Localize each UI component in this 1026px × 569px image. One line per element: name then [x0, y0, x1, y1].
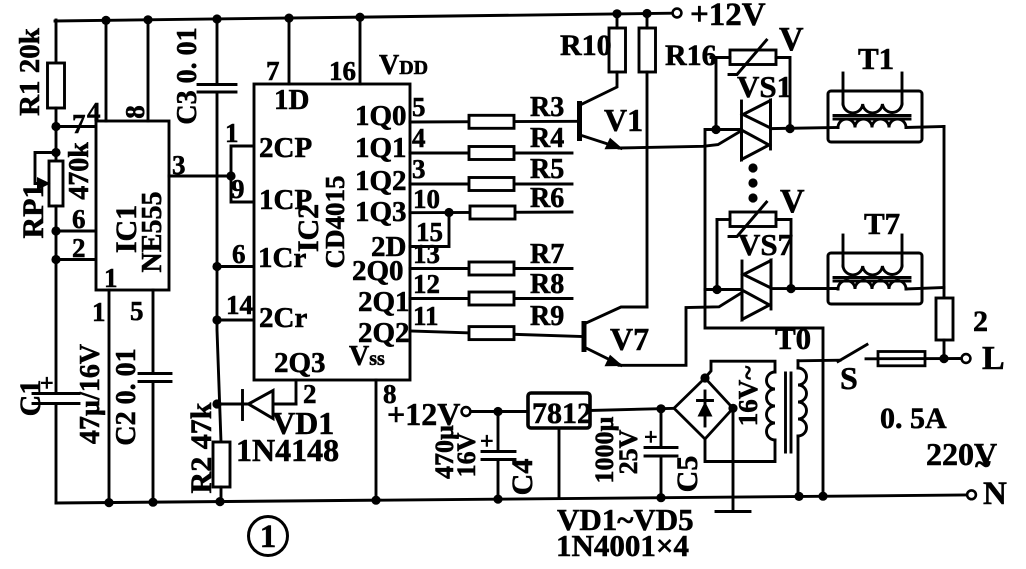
- svg-text:6: 6: [72, 204, 86, 234]
- fuse 0.5A: [878, 352, 944, 366]
- wire IC2 pin 6 stub: [217, 265, 254, 268]
- wire VS7 MT1: [705, 288, 742, 291]
- wire MT1 common bus to N rail: [705, 130, 823, 497]
- svg-text:2: 2: [973, 305, 988, 338]
- svg-text:14: 14: [226, 290, 253, 320]
- transistor V1: [580, 72, 624, 149]
- capacitor C5: [644, 409, 677, 498]
- resistor R9: [469, 327, 514, 340]
- resistor R7: [469, 262, 514, 275]
- svg-text:V: V: [779, 21, 804, 58]
- svg-text:R7: R7: [530, 239, 564, 270]
- svg-text:5: 5: [412, 92, 426, 122]
- node pin6 junction: [51, 226, 60, 235]
- svg-text:R1 20k: R1 20k: [14, 27, 46, 116]
- wire 2Q0 R7: [410, 267, 572, 270]
- wire left bus top: [55, 20, 58, 64]
- clock bracket pins 1,9: [231, 146, 254, 202]
- wire 2Q1 R8: [410, 297, 572, 300]
- wire reset bus C3 down: [217, 92, 221, 442]
- wire 1Q1 R4: [410, 152, 572, 155]
- varistor V of VS1: [711, 40, 790, 130]
- svg-text:2Q3: 2Q3: [274, 347, 326, 379]
- node rail pin4: [101, 16, 110, 25]
- svg-text:2: 2: [72, 233, 86, 263]
- resistor R16: [639, 28, 656, 72]
- svg-text:2Q1: 2Q1: [358, 286, 410, 318]
- capacitor C2: [139, 374, 171, 382]
- wire IC1 pin 7: [56, 125, 96, 128]
- IC1 NE555: [96, 121, 169, 290]
- wire R16 to V7 collector: [646, 72, 649, 307]
- resistor R1: [48, 63, 65, 108]
- svg-text:7: 7: [72, 109, 86, 139]
- svg-text:2Q0: 2Q0: [352, 255, 404, 287]
- wire V7 emitter to VS7 gate: [619, 293, 742, 366]
- svg-text:R16: R16: [665, 39, 717, 72]
- svg-text:10: 10: [413, 184, 440, 214]
- wire 1Q3 R6: [410, 211, 572, 215]
- svg-text:1: 1: [92, 297, 106, 327]
- resistor R5: [469, 178, 514, 191]
- svg-text:V7: V7: [610, 321, 649, 357]
- svg-text:1N4001×4: 1N4001×4: [556, 528, 689, 563]
- svg-text:V: V: [780, 183, 805, 220]
- svg-text:16V~: 16V~: [733, 366, 763, 427]
- wire T0 primary to switch: [798, 359, 840, 362]
- svg-text:3: 3: [412, 154, 426, 184]
- svg-text:R3: R3: [530, 92, 564, 123]
- wire 7812 output to +12V: [471, 410, 529, 413]
- svg-text:1Q3: 1Q3: [355, 196, 407, 228]
- node rail R2: [215, 497, 224, 506]
- svg-text:C4: C4: [506, 459, 539, 496]
- wire right rail T1 T7 down: [943, 127, 946, 299]
- ground: [716, 510, 750, 513]
- capacitor C4: [480, 412, 515, 500]
- varistor V of VS7: [717, 202, 791, 290]
- capacitor C3: [198, 19, 236, 92]
- svg-text:4: 4: [412, 123, 426, 153]
- node 2Cr junction: [212, 315, 221, 324]
- wire fuse to L line: [943, 340, 946, 359]
- svg-text:C1: C1: [14, 380, 47, 417]
- wire 2Q2 R9 to V7 base: [410, 331, 582, 337]
- svg-text:12: 12: [413, 269, 440, 299]
- wire C2 to rail: [152, 382, 155, 503]
- wire to L terminal: [944, 357, 961, 360]
- wire IC1 pin 1 to rail: [108, 290, 111, 503]
- transformer T7: [828, 235, 944, 304]
- svg-text:9: 9: [231, 174, 245, 204]
- svg-text:16V: 16V: [452, 432, 481, 477]
- resistor R4: [469, 147, 514, 160]
- wire VS7 MT2 to T7: [771, 287, 838, 290]
- wire bus C1 to bottom rail: [55, 404, 58, 504]
- wire IC1 pin 5: [152, 290, 155, 374]
- switch S: [838, 345, 867, 362]
- resistor R10: [609, 28, 626, 72]
- wire V1 emitter to VS1 gate: [619, 132, 740, 149]
- node rail pin1: [104, 498, 113, 507]
- svg-text:7812: 7812: [532, 397, 592, 430]
- triac VS7: [742, 260, 771, 320]
- diode VD1 1N4148: [217, 380, 296, 420]
- terminal L: [962, 354, 971, 363]
- regulator 7812: [528, 393, 590, 428]
- node pin3 to clock: [226, 171, 235, 180]
- svg-text:0. 5A: 0. 5A: [880, 402, 947, 435]
- svg-text:+: +: [480, 429, 494, 455]
- svg-text:1N4148: 1N4148: [236, 432, 339, 468]
- svg-text:1: 1: [260, 519, 277, 555]
- node VD1 junction: [212, 399, 221, 408]
- svg-text:+12V: +12V: [690, 0, 766, 33]
- svg-text:1Q0: 1Q0: [355, 100, 407, 132]
- svg-text:R8: R8: [530, 269, 564, 300]
- svg-text:L: L: [982, 340, 1005, 377]
- svg-text:C5: C5: [671, 456, 704, 493]
- svg-text:VS7: VS7: [738, 227, 793, 262]
- wire IC2 pin 8 Vss to rail: [375, 380, 378, 500]
- svg-text:VDD: VDD: [379, 50, 428, 81]
- wire 7812 input from bridge: [590, 408, 674, 410]
- transformer T1: [828, 73, 944, 142]
- svg-text:NE555: NE555: [137, 192, 168, 273]
- node wiper junction: [51, 148, 60, 157]
- svg-text:8: 8: [120, 105, 150, 119]
- svg-text:~: ~: [975, 448, 991, 481]
- svg-text:13: 13: [413, 239, 440, 269]
- svg-text:25V: 25V: [614, 429, 643, 474]
- svg-text:2CP: 2CP: [259, 132, 312, 164]
- svg-text:R2 47k: R2 47k: [185, 402, 218, 493]
- svg-text:R6: R6: [530, 183, 564, 214]
- svg-text:2Cr: 2Cr: [259, 302, 307, 334]
- svg-text:16: 16: [329, 56, 356, 86]
- wire bus R1 to RP1: [55, 108, 58, 162]
- resistor R8: [469, 292, 514, 305]
- wire bottom rail: [56, 495, 966, 503]
- node pin7 junction: [51, 122, 60, 131]
- svg-text:1: 1: [104, 263, 118, 293]
- node 1Cr junction: [212, 262, 221, 271]
- wire VS1 MT2 to T1: [771, 128, 839, 129]
- svg-text:1D: 1D: [274, 84, 309, 116]
- svg-text:11: 11: [413, 301, 439, 331]
- wire 1Q0 R3 to V1 base: [410, 120, 577, 124]
- svg-text:C3 0. 01: C3 0. 01: [172, 27, 203, 124]
- dots between VS1 and VS7: [748, 163, 757, 172]
- svg-text:1: 1: [225, 118, 239, 148]
- wire 1Q3 to 2D loop: [410, 213, 449, 247]
- svg-text:3: 3: [172, 150, 186, 180]
- node rail C3: [212, 14, 221, 23]
- svg-text:T0: T0: [775, 321, 811, 356]
- wire IC2 pin 14 stub: [217, 319, 254, 322]
- IC2 CD4015: [254, 84, 410, 380]
- terminal N: [967, 490, 976, 499]
- svg-text:T1: T1: [858, 41, 894, 76]
- svg-text:RP1: RP1: [17, 184, 50, 239]
- wire R2 to rail: [220, 487, 223, 502]
- potentiometer RP1: [35, 153, 63, 207]
- fuse 2: [936, 298, 953, 340]
- capacitor C1: [33, 371, 79, 404]
- svg-text:1Q2: 1Q2: [355, 165, 407, 197]
- wire IC1 pin 3: [169, 175, 231, 178]
- transistor V7: [584, 307, 647, 366]
- svg-text:R4: R4: [530, 123, 564, 154]
- svg-text:470k: 470k: [64, 142, 95, 200]
- wire 1Q2 R5: [410, 183, 572, 186]
- svg-text:S: S: [840, 360, 858, 396]
- figure number 1 circled: [249, 517, 288, 556]
- transformer T0: [705, 361, 807, 497]
- resistor R3: [469, 115, 514, 128]
- svg-text:C2 0. 01: C2 0. 01: [111, 348, 142, 445]
- wire IC1 pin 8: [147, 20, 150, 121]
- svg-text:V1: V1: [604, 102, 643, 138]
- node rail C2: [148, 498, 157, 507]
- svg-text:R9: R9: [530, 301, 564, 332]
- svg-text:5: 5: [130, 296, 144, 326]
- svg-text:6: 6: [232, 239, 246, 269]
- svg-text:1Q1: 1Q1: [355, 132, 407, 164]
- svg-text:4: 4: [87, 97, 101, 127]
- wire IC1 pin 6: [56, 230, 96, 233]
- node 1Q3 to 2D: [444, 208, 453, 217]
- svg-text:CD4015: CD4015: [320, 176, 350, 269]
- wire VS1 MT1: [716, 128, 742, 131]
- node pin2 junction: [51, 255, 60, 264]
- wire bridge DC minus to ground: [732, 408, 735, 511]
- node rail pin8: [143, 15, 152, 24]
- bridge rectifier VD2-VD5: [674, 378, 733, 439]
- terminal +12V mid: [462, 407, 471, 416]
- wire top +12V rail: [55, 13, 672, 21]
- wire bus RP1 down to C1: [55, 206, 58, 393]
- wire IC1 pin 4: [105, 20, 108, 121]
- svg-text:R5: R5: [530, 154, 564, 185]
- wire 7812 gnd: [558, 428, 561, 499]
- svg-text:7: 7: [266, 56, 280, 86]
- triac VS1: [742, 100, 771, 160]
- terminal +12V top: [673, 9, 682, 18]
- node C5 top: [656, 404, 665, 413]
- svg-text:T7: T7: [864, 206, 900, 241]
- resistor R2: [213, 442, 230, 487]
- wire IC2 pin 16: [359, 17, 362, 84]
- wire IC2 pin 7: [288, 18, 291, 84]
- svg-text:VS1: VS1: [737, 69, 792, 104]
- svg-text:47µ/16V: 47µ/16V: [75, 344, 106, 444]
- resistor R6: [470, 206, 515, 219]
- wire IC1 pin 2: [56, 258, 96, 261]
- node C4 top: [493, 407, 502, 416]
- node T0 primary rail: [794, 492, 803, 501]
- svg-text:N: N: [983, 476, 1007, 512]
- svg-text:+: +: [644, 425, 658, 451]
- svg-text:R10: R10: [560, 29, 612, 62]
